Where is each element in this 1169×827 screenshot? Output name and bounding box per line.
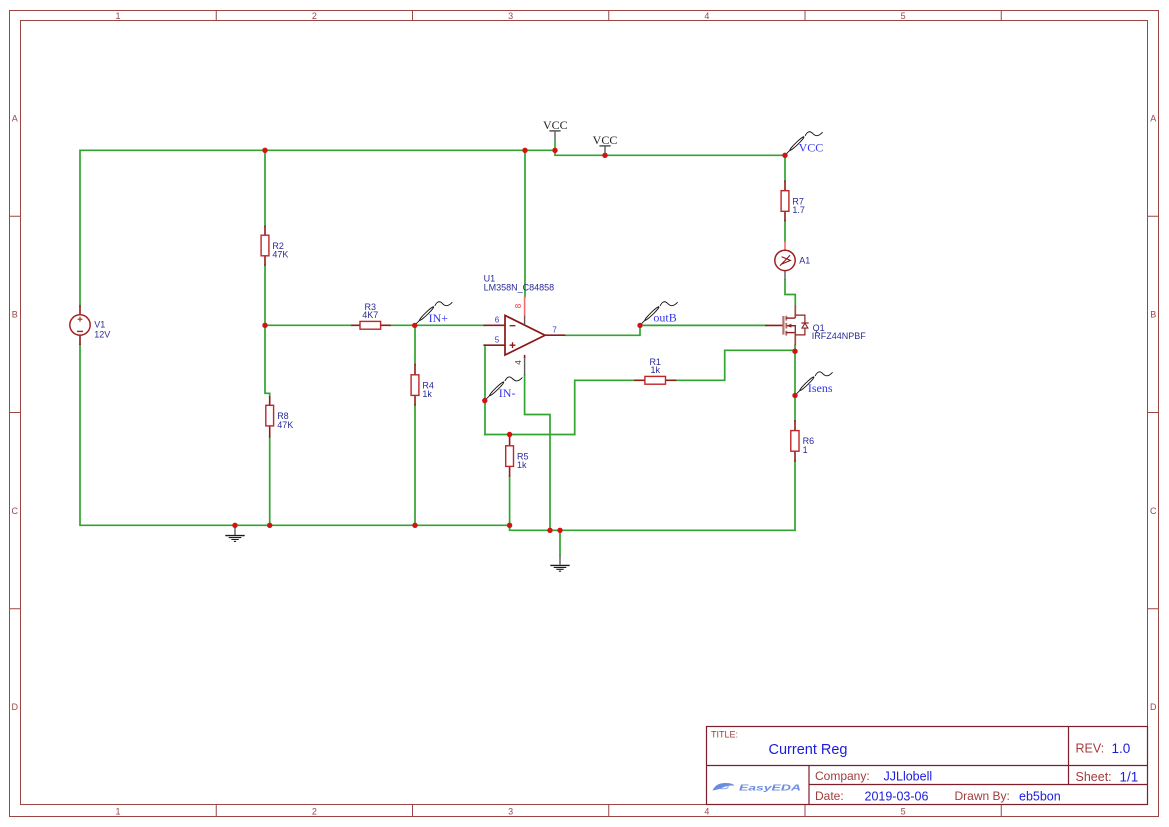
svg-text:1k: 1k	[422, 389, 432, 399]
junction R2 R8 R3 node	[262, 323, 267, 328]
svg-text:4: 4	[514, 360, 523, 365]
wire R8 top with jog	[265, 325, 270, 397]
junction node VCC net flag	[782, 153, 787, 158]
svg-text:Date:: Date:	[815, 789, 844, 803]
svg-text:eb5bon: eb5bon	[1019, 789, 1061, 803]
net flag VCC	[786, 132, 823, 155]
resistor R6	[791, 421, 814, 461]
svg-text:1: 1	[115, 807, 120, 817]
svg-text:D: D	[11, 702, 18, 712]
svg-text:2: 2	[312, 807, 317, 817]
junction VCC power flag right	[602, 153, 607, 158]
svg-text:VCC: VCC	[593, 133, 618, 147]
resistor R2	[261, 226, 288, 265]
wire op-amp output to outB node	[565, 325, 640, 335]
svg-text:V1: V1	[94, 320, 105, 330]
junction Q1 source node	[792, 349, 797, 354]
resistor R8	[266, 397, 293, 437]
voltage source V1	[70, 306, 111, 344]
svg-text:Isens: Isens	[808, 381, 833, 395]
svg-text:1.0: 1.0	[1112, 741, 1131, 756]
wire A1 to Q1 drain	[785, 280, 795, 305]
svg-text:Sheet:: Sheet:	[1076, 770, 1112, 784]
wire V1 top to top rail	[80, 150, 555, 306]
wire op-amp pin 8 to VCC rail	[524, 150, 526, 296]
pin 7	[545, 334, 565, 336]
svg-text:5: 5	[901, 11, 906, 21]
resistor R4	[411, 365, 434, 405]
resistor R5	[506, 435, 529, 476]
svg-text:12V: 12V	[94, 329, 110, 339]
junction node outB	[637, 323, 642, 328]
wire node IN- horizontal	[485, 434, 575, 436]
wire bottom rail step down	[510, 525, 795, 530]
svg-text:1: 1	[803, 445, 808, 455]
wire R5 bottom	[509, 476, 511, 525]
svg-text:6: 6	[495, 316, 500, 325]
op-amp U1	[484, 273, 565, 375]
junction R2 top at VCC rail	[262, 148, 267, 153]
junction ground tap middle	[557, 528, 562, 533]
wire op-amp pin 5 down	[484, 345, 486, 434]
net flag outB	[641, 302, 678, 325]
junction op-amp pin 8 at VCC rail	[522, 148, 527, 153]
transistor Q1	[766, 305, 866, 345]
junction R4 bottom	[412, 523, 417, 528]
pin 8	[524, 297, 526, 316]
junction op-amp pin 4 net at ground rail	[547, 528, 552, 533]
pin 6	[484, 324, 505, 326]
svg-text:3: 3	[508, 807, 513, 817]
pin 5	[484, 344, 505, 346]
svg-text:47K: 47K	[272, 250, 288, 260]
wire ground 2 stub	[559, 530, 561, 555]
svg-text:C: C	[1150, 506, 1157, 516]
junction node IN+	[412, 323, 417, 328]
svg-text:IN+: IN+	[429, 311, 449, 325]
wire Isens node to R6	[794, 396, 796, 421]
wire node to R3	[265, 324, 352, 326]
svg-text:D: D	[1150, 702, 1157, 712]
svg-text:47K: 47K	[277, 420, 293, 430]
resistor R7	[781, 181, 805, 220]
svg-text:JJLlobell: JJLlobell	[884, 769, 933, 783]
wire R2 bottom to node	[264, 265, 266, 325]
wire R4 top	[414, 325, 416, 364]
junction VCC power flag left	[552, 148, 557, 153]
ground (middle)	[550, 555, 569, 571]
svg-text:REV:: REV:	[1076, 742, 1105, 756]
wire R7 to A1	[784, 221, 786, 242]
wire R4 bottom	[414, 405, 416, 525]
power flag VCC (left)	[543, 118, 568, 150]
wire source node to Isens node	[794, 351, 796, 395]
svg-text:B: B	[12, 310, 18, 320]
svg-text:IRFZ44NPBF: IRFZ44NPBF	[812, 331, 867, 341]
svg-text:outB: outB	[653, 311, 676, 325]
ground (left)	[225, 527, 244, 542]
svg-text:A: A	[1150, 113, 1156, 123]
svg-text:Drawn By:: Drawn By:	[955, 789, 1010, 803]
svg-text:A1: A1	[799, 256, 810, 266]
svg-text:1/1: 1/1	[1120, 769, 1139, 784]
wire top rail step down	[555, 150, 785, 155]
wire R3 to op-amp pin 6	[390, 324, 485, 326]
svg-text:4: 4	[704, 807, 709, 817]
svg-text:4K7: 4K7	[362, 310, 378, 320]
resistor R1	[635, 357, 676, 384]
wire V1 bottom to bottom rail	[80, 344, 510, 525]
svg-text:3: 3	[508, 11, 513, 21]
ammeter A1	[775, 241, 810, 280]
wire R6 bottom	[794, 461, 796, 530]
pin 4	[524, 355, 526, 359]
svg-text:2019-03-06: 2019-03-06	[865, 789, 929, 803]
svg-text:5: 5	[901, 807, 906, 817]
svg-text:IN-: IN-	[499, 386, 516, 400]
power flag VCC (right of pair)	[593, 133, 618, 155]
svg-text:C: C	[11, 506, 18, 516]
svg-text:Company:: Company:	[815, 769, 870, 783]
junction ground tap left	[232, 523, 237, 528]
wire VCC to R7	[784, 155, 786, 181]
svg-text:8: 8	[514, 303, 523, 308]
wire Q1 source to node	[794, 345, 796, 351]
svg-text:LM358N_C84858: LM358N_C84858	[484, 282, 555, 292]
junction R8 bottom	[267, 523, 272, 528]
svg-text:B: B	[1150, 310, 1156, 320]
svg-text:2: 2	[312, 11, 317, 21]
net flag IN-	[486, 377, 523, 400]
junction R5 top node	[507, 432, 512, 437]
junction node Isens	[792, 393, 797, 398]
svg-text:4: 4	[704, 11, 709, 21]
wire R8 bottom	[269, 437, 271, 526]
net flag Isens	[796, 372, 833, 395]
junction node IN-	[482, 398, 487, 403]
wire op-amp pin 4 to ground rail	[525, 375, 550, 530]
svg-text:VCC: VCC	[543, 118, 568, 132]
svg-text:7: 7	[552, 325, 557, 334]
wire R2 top	[264, 150, 266, 226]
svg-text:1: 1	[115, 11, 120, 21]
svg-text:EasyEDA: EasyEDA	[739, 784, 801, 793]
wire up to R1 left	[575, 380, 635, 434]
resistor R3	[352, 302, 390, 329]
wire outB node to Q1 gate	[640, 324, 766, 326]
svg-text:1k: 1k	[650, 365, 660, 375]
svg-text:TITLE:: TITLE:	[711, 730, 738, 740]
net flag IN+	[416, 302, 453, 325]
svg-text:5: 5	[495, 336, 500, 345]
svg-text:VCC: VCC	[799, 140, 824, 154]
svg-text:A: A	[12, 113, 18, 123]
wire R1 right to source node	[676, 350, 796, 380]
svg-text:Current Reg: Current Reg	[769, 742, 848, 758]
svg-text:1k: 1k	[517, 460, 527, 470]
svg-text:1.7: 1.7	[792, 205, 805, 215]
junction R5 bottom	[507, 523, 512, 528]
